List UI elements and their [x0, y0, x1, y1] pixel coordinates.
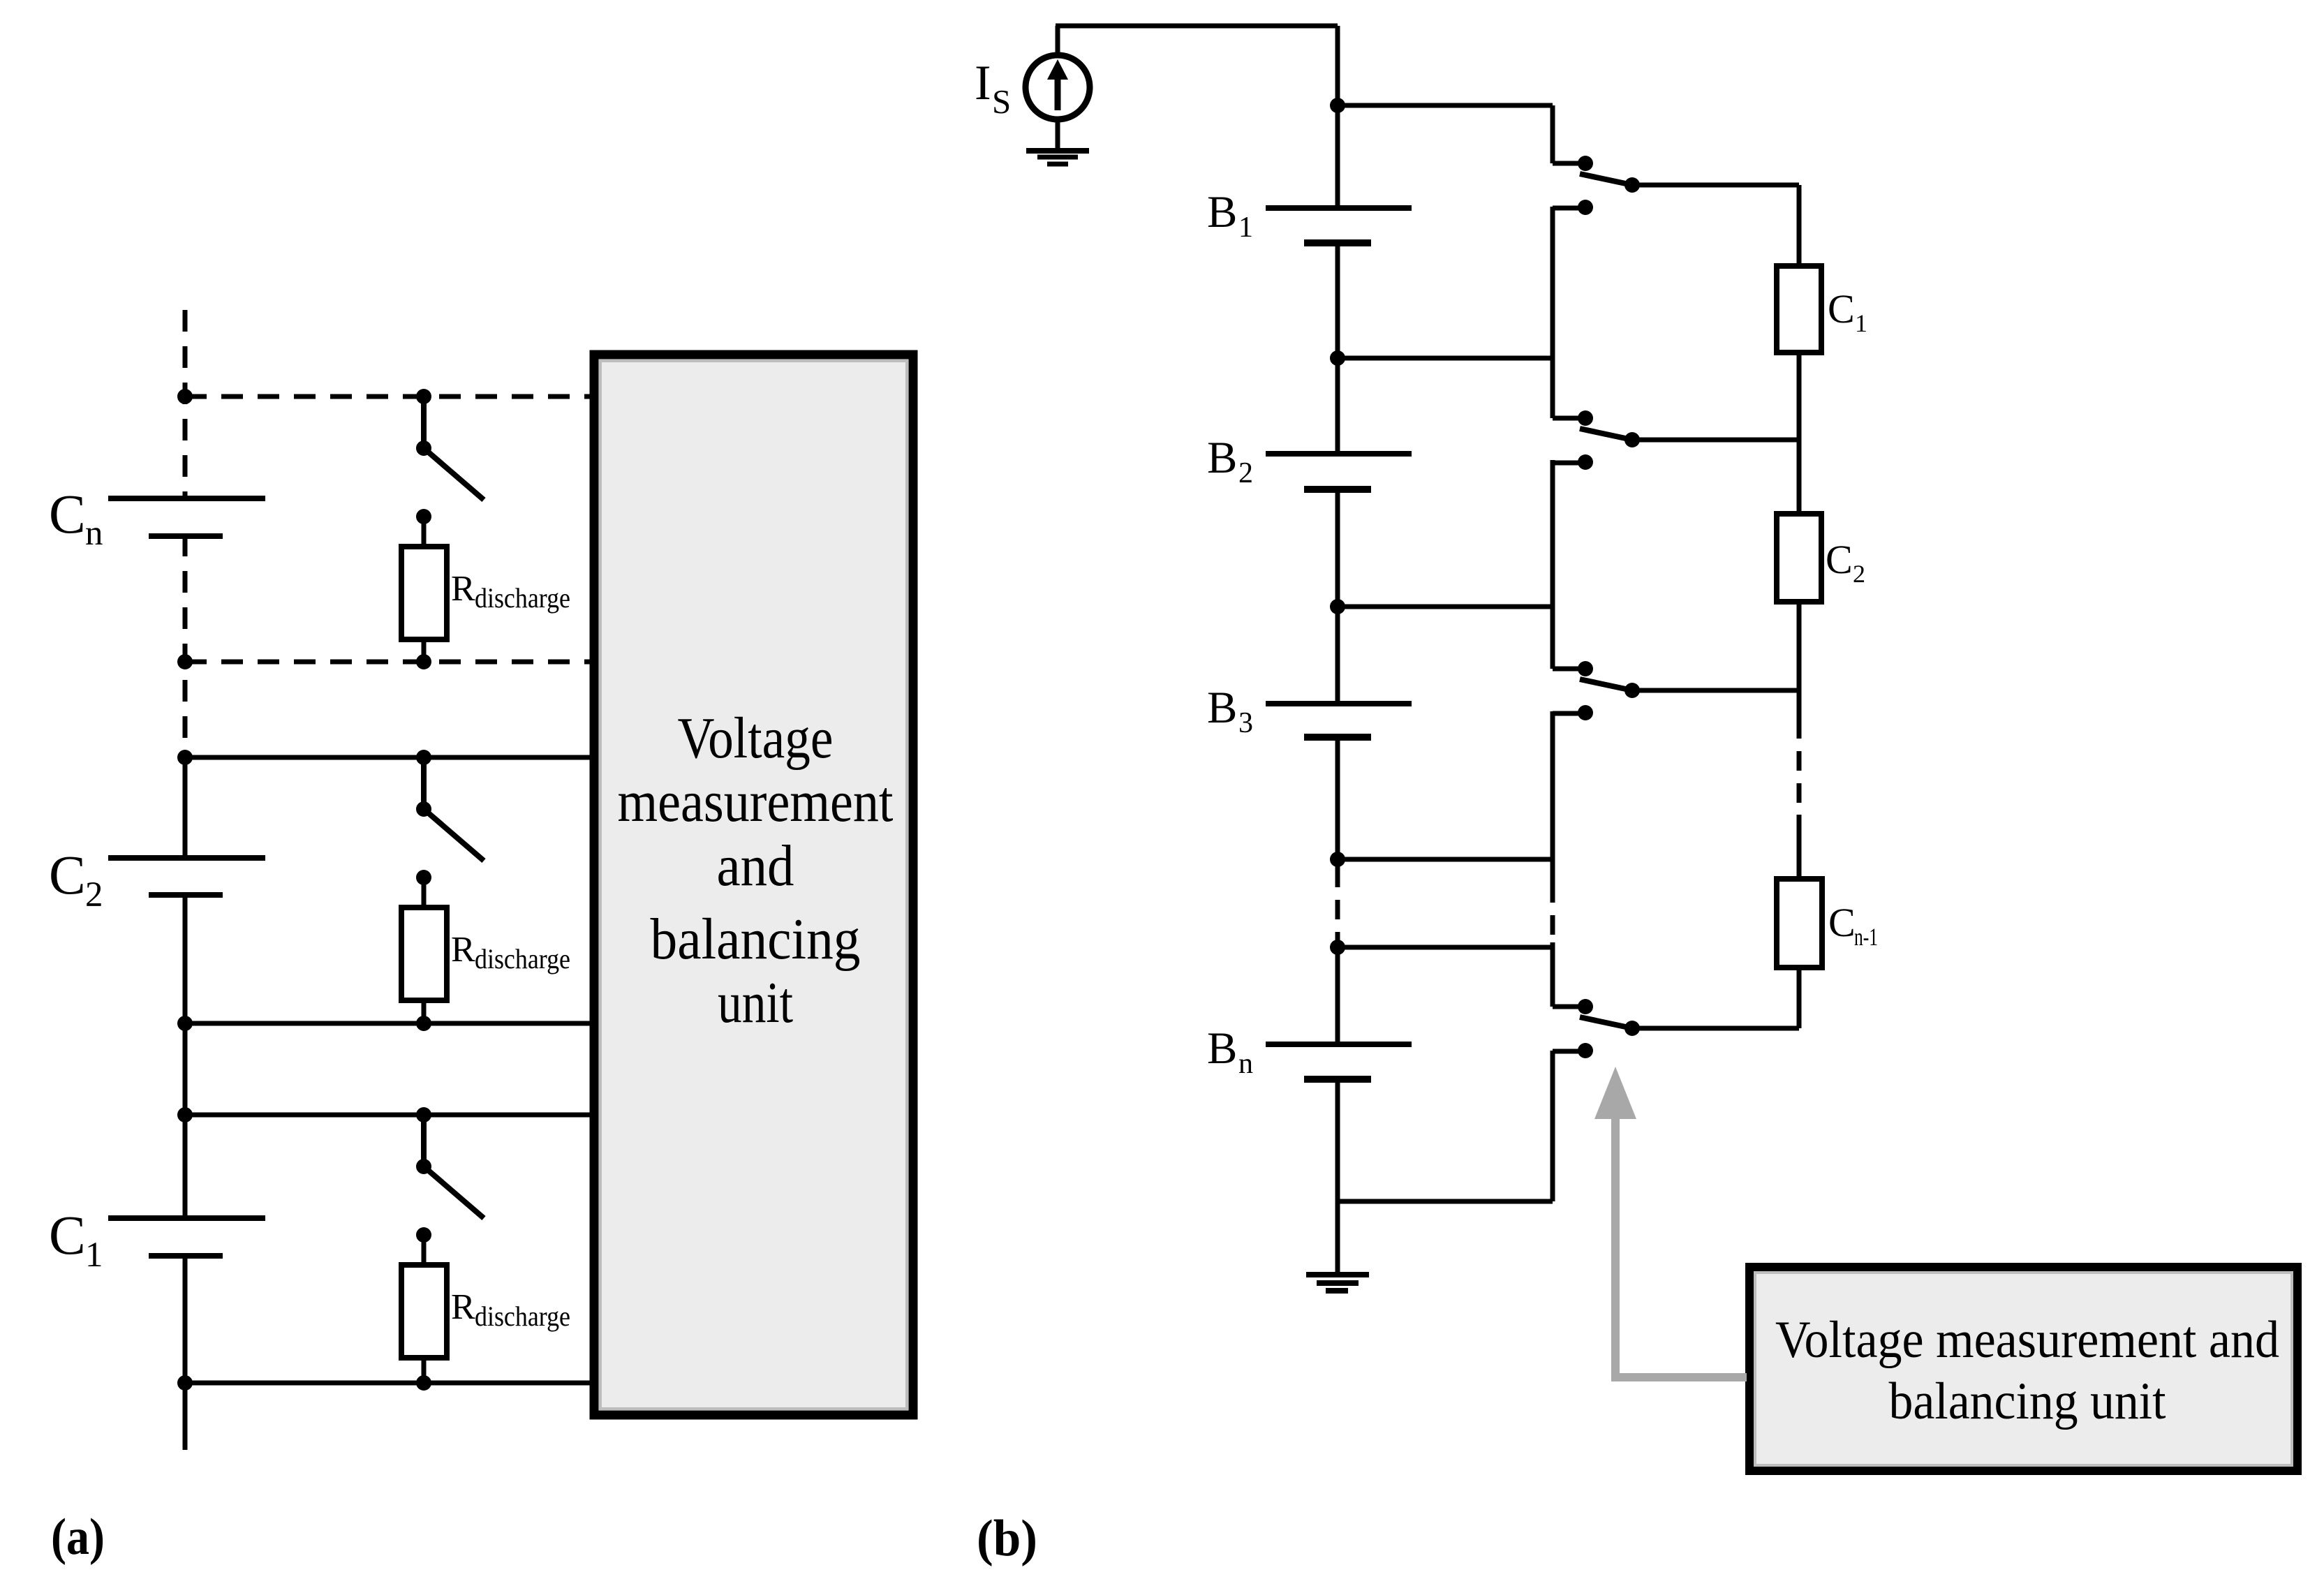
battery cell Cn: [108, 496, 265, 501]
wire: tap 1 to switch bus: [1338, 103, 1553, 108]
svg-text:C: C: [1826, 537, 1853, 582]
wire: chain C2 section: [183, 757, 188, 858]
svg-text:n-1: n-1: [1854, 923, 1878, 951]
switch SW2 bottom throw contact: [1578, 454, 1593, 470]
wire: battery string segment 5: [1335, 941, 1340, 1044]
wire: chain between Cn and C2 (dashed): [183, 535, 188, 757]
node: junction chain/tap 2: [177, 654, 193, 669]
node: battery tap 3: [1330, 599, 1345, 614]
svg-text:discharge: discharge: [475, 1301, 570, 1332]
ground symbol at string bottom: [1306, 1272, 1369, 1277]
switch SW1 pole: [1624, 177, 1640, 193]
wire: C1 to C2: [1797, 353, 1802, 514]
svg-text:balancing: balancing: [651, 907, 861, 972]
wire: battery string continuation (dashed): [1335, 868, 1340, 941]
resistor Rdischarge 3: [416, 1227, 431, 1243]
battery Bn: [1266, 1042, 1412, 1047]
switch S3 (balancing switch, open): [421, 1115, 427, 1166]
node: junction switch-column/tap 3: [416, 750, 431, 765]
wire: tap 1 from cell string to measurement unit: [185, 394, 595, 399]
svg-text:unit: unit: [718, 970, 793, 1035]
svg-text:Voltage measurement and: Voltage measurement and: [1775, 1311, 2279, 1369]
switch SW1 top throw contact: [1553, 161, 1585, 166]
switch SW3 blade: [1580, 679, 1632, 690]
wire: chain bottom tail: [183, 1255, 188, 1450]
switch S2 (balancing switch, open): [421, 757, 427, 809]
wire: column continuation (dashed): [1797, 719, 1802, 815]
svg-text:(b): (b): [977, 1510, 1037, 1567]
node: junction chain/tap 3: [177, 750, 193, 765]
svg-text:I: I: [975, 56, 991, 110]
switch SW3 bottom throw contact: [1578, 705, 1593, 720]
battery B2: [1266, 451, 1412, 457]
switch SWn bottom throw contact: [1578, 1043, 1593, 1058]
wire: battery string segment 2: [1335, 243, 1340, 454]
svg-text:2: 2: [85, 875, 103, 914]
node: junction chain/tap 1: [177, 389, 193, 404]
svg-text:n: n: [85, 514, 103, 553]
svg-text:C: C: [49, 1206, 86, 1266]
wire: tap 3 to switch bus: [1338, 605, 1553, 609]
annotation arrow: unit controls switches: [1615, 1118, 1747, 1377]
svg-text:discharge: discharge: [475, 582, 570, 614]
node: junction switch-column/tap 6: [416, 1375, 431, 1391]
wire: tap 4 from cell string to measurement unit: [185, 1021, 595, 1026]
wire: tap 5 to switch bus: [1338, 945, 1553, 950]
wire: tap 2 to switch bus: [1338, 356, 1553, 361]
resistor Rdischarge 1: [416, 509, 431, 524]
battery B1: [1266, 205, 1412, 211]
svg-text:R: R: [451, 1287, 475, 1327]
wire: cell string top (dashed): [183, 310, 188, 498]
svg-text:C: C: [1828, 286, 1855, 332]
battery cell C1: [108, 1215, 265, 1221]
wire: bus down to SWn: [1550, 942, 1555, 1007]
current source Is: [1026, 55, 1090, 119]
wire: Cn-1 to SWn pole: [1797, 968, 1802, 1028]
wire: tap 6 from cell string to measurement unit: [185, 1381, 595, 1386]
svg-text:R: R: [451, 569, 475, 609]
wire: bus SWn bottom to string bottom: [1550, 1051, 1555, 1201]
svg-text:discharge: discharge: [475, 943, 570, 975]
wire: chain between C2 and C1: [183, 894, 188, 1218]
wire: battery string segment 1: [1335, 105, 1340, 208]
wire: tap 3 from cell string to measurement unit: [185, 755, 595, 760]
svg-text:2: 2: [1238, 457, 1253, 489]
svg-text:B: B: [1207, 1023, 1237, 1074]
switch SW1 bottom throw contact: [1578, 200, 1593, 215]
node: junction chain/tap 6: [177, 1375, 193, 1391]
svg-text:C: C: [49, 484, 86, 545]
svg-text:R: R: [451, 930, 475, 970]
svg-text:B: B: [1207, 683, 1237, 733]
wire: bus SW1 to SW2: [1550, 207, 1555, 418]
node: junction switch-column/tap 1: [416, 389, 431, 404]
wire: bus SW3 down (solid): [1550, 711, 1555, 883]
node: junction chain/tap 4: [177, 1016, 193, 1031]
wire: battery string to ground: [1335, 1079, 1340, 1275]
svg-text:B: B: [1207, 433, 1237, 483]
wire: battery string segment 4: [1335, 737, 1340, 868]
node: junction switch-column/tap 2: [416, 654, 431, 669]
switch SW3 top throw contact: [1553, 667, 1585, 672]
node: junction switch-column/tap 5: [416, 1107, 431, 1122]
switch SW2 top throw contact: [1553, 416, 1585, 421]
node: junction chain/tap 5: [177, 1107, 193, 1122]
switch SWn blade: [1580, 1017, 1632, 1028]
svg-text:balancing unit: balancing unit: [1889, 1372, 2166, 1430]
svg-text:(a): (a): [51, 1509, 105, 1566]
battery B3: [1266, 701, 1412, 706]
block: voltage measurement and balancing unit (b): [1749, 1267, 2297, 1471]
wire: bus SW2 to SW3: [1550, 460, 1555, 669]
wire: C2 down (solid): [1797, 602, 1802, 719]
wire: tap 4 to switch bus: [1338, 857, 1553, 862]
wire: column top to C1: [1797, 185, 1802, 266]
wire: column to Cn-1: [1797, 815, 1802, 879]
wire: SW1 pole to balancing resistor column: [1632, 183, 1799, 188]
wire: bus continuation (dashed): [1550, 883, 1555, 942]
svg-text:measurement: measurement: [618, 769, 894, 834]
svg-text:and: and: [717, 833, 794, 898]
switch SW1 blade: [1580, 174, 1632, 185]
resistor C1: [1777, 266, 1821, 353]
switch SWn top throw contact: [1553, 1005, 1585, 1009]
wire: tap 2 from cell string to measurement unit: [185, 660, 595, 665]
switch SW2 pole: [1624, 432, 1640, 447]
svg-text:3: 3: [1238, 707, 1253, 739]
switch S1 (balancing switch, open): [421, 397, 427, 448]
svg-text:1: 1: [85, 1236, 103, 1275]
switch SWn pole: [1624, 1021, 1640, 1036]
ground symbol under Is: [1056, 119, 1060, 149]
wire: tap 5 from cell string to measurement unit: [185, 1113, 595, 1118]
switch SW2 blade: [1580, 429, 1632, 440]
wire: SW3 pole to balancing resistor column: [1632, 688, 1799, 693]
wire: SW2 pole to balancing resistor column: [1632, 438, 1799, 443]
switch SW3 pole: [1624, 683, 1640, 698]
svg-text:C: C: [49, 845, 86, 906]
node: junction switch-column/tap 4: [416, 1016, 431, 1031]
wire: SWn pole to balancing resistor column: [1632, 1026, 1799, 1031]
svg-text:1: 1: [1238, 212, 1253, 244]
svg-text:Voltage: Voltage: [678, 706, 834, 771]
svg-text:C: C: [1828, 900, 1856, 945]
resistor Cn-1: [1777, 879, 1822, 968]
svg-text:2: 2: [1853, 560, 1865, 588]
svg-text:S: S: [992, 82, 1011, 121]
wire: bus Is-node to switch SW1: [1550, 105, 1555, 163]
node: battery tap 2: [1330, 350, 1345, 366]
node: battery tap 5: [1330, 940, 1345, 955]
wire: Is to battery string top: [1056, 26, 1060, 55]
wire: battery string segment 3: [1335, 489, 1340, 704]
svg-text:B: B: [1207, 187, 1237, 237]
svg-text:n: n: [1238, 1048, 1253, 1080]
node: battery tap 1: [1330, 98, 1345, 113]
svg-text:1: 1: [1855, 309, 1867, 337]
resistor C2: [1777, 514, 1821, 602]
block: voltage measurement and balancing unit (a): [594, 355, 913, 1415]
node: battery tap 4: [1330, 852, 1345, 867]
resistor Rdischarge 2: [416, 870, 431, 885]
battery cell C2: [108, 855, 265, 861]
